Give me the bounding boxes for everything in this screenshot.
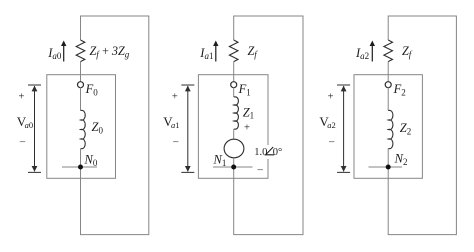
svg-text:N0: N0 [84, 152, 98, 167]
current arrow Ia0 [61, 41, 66, 62]
svg-text:Ia0: Ia0 [47, 46, 62, 61]
neutral bus line at N0 [62, 166, 97, 168]
junction dot N0 [78, 165, 83, 170]
inductor Z0 [81, 110, 86, 148]
svg-text:Va0: Va0 [17, 114, 33, 130]
node F1 (fault terminal, open circle) [231, 82, 237, 88]
neutral bus line at N2 [369, 166, 403, 168]
svg-text:Va1: Va1 [163, 114, 179, 130]
svg-text:F2: F2 [393, 82, 406, 97]
wire inductor Z2 to node N2 [387, 149, 389, 168]
svg-text:Zf: Zf [248, 44, 259, 59]
wire source to node N1 [233, 158, 235, 167]
wire resistor to node F2 [387, 62, 389, 82]
svg-text:0°: 0° [273, 147, 282, 158]
wire inductor Z1 to source [233, 129, 235, 139]
junction dot N1 [231, 165, 236, 170]
wire inductor Z0 to node N0 [80, 149, 82, 168]
resistor Zf+3Zg circuit 0 [76, 40, 85, 62]
svg-text:N2: N2 [394, 152, 408, 167]
wire node F1 to inductor Z1 [233, 87, 235, 97]
svg-text:F0: F0 [85, 82, 99, 97]
wire resistor to node F1 [233, 62, 235, 82]
wire resistor to node F0 [80, 62, 82, 82]
voltage arrow Va1 (double headed) [181, 85, 194, 172]
svg-text:Z0: Z0 [92, 120, 104, 135]
wire node F0 to inductor Z0 [80, 87, 82, 110]
wire outer fault loop 1 [234, 16, 303, 235]
node F2 (fault terminal, open circle) [385, 82, 391, 88]
svg-text:+: + [328, 92, 334, 103]
current arrow Ia2 [370, 41, 375, 62]
svg-text:N1: N1 [213, 152, 227, 167]
svg-text:Zf + 3Zg: Zf + 3Zg [90, 44, 130, 59]
current arrow Ia1 [213, 41, 218, 62]
svg-text:+: + [172, 92, 178, 103]
negative-sequence network circuit 3 [319, 16, 456, 235]
value label 1.0 angle 0 deg [252, 145, 286, 159]
svg-text:1.0: 1.0 [254, 147, 267, 158]
svg-text:Ia1: Ia1 [199, 46, 213, 61]
voltage arrow Va0 (double headed) [28, 85, 41, 172]
neutral bus line at N1 [213, 166, 253, 168]
svg-text:+: + [19, 92, 25, 103]
junction dot N2 [386, 165, 391, 170]
resistor Zf circuit 2 [384, 40, 393, 62]
svg-text:F1: F1 [238, 82, 251, 97]
network box 2 [354, 75, 422, 179]
positive-sequence network circuit 2 [163, 16, 303, 235]
resistor Zf circuit 1 [229, 40, 238, 62]
voltage arrow Va2 (double headed) [337, 85, 350, 172]
wire outer fault loop 0 [81, 16, 149, 235]
svg-text:Va2: Va2 [319, 114, 335, 130]
svg-text:–: – [19, 137, 26, 148]
svg-text:–: – [172, 137, 179, 148]
network box 1 [198, 75, 268, 179]
inductor Z2 [388, 110, 393, 148]
zero-sequence network circuit 1 [17, 16, 149, 235]
node F0 (fault terminal, open circle) [78, 82, 84, 88]
svg-text:Z2: Z2 [400, 121, 411, 136]
svg-text:Z1: Z1 [243, 105, 254, 120]
svg-text:–: – [257, 165, 264, 176]
network box 0 [47, 75, 116, 179]
svg-text:–: – [328, 137, 335, 148]
voltage source E1 [224, 139, 244, 158]
svg-text:Ia2: Ia2 [355, 46, 369, 61]
wire outer fault loop 2 [388, 16, 456, 235]
svg-text:Zf: Zf [402, 44, 413, 59]
svg-text:+: + [244, 122, 250, 133]
inductor Z1 [234, 97, 239, 129]
wire node F2 to inductor Z2 [387, 87, 389, 110]
